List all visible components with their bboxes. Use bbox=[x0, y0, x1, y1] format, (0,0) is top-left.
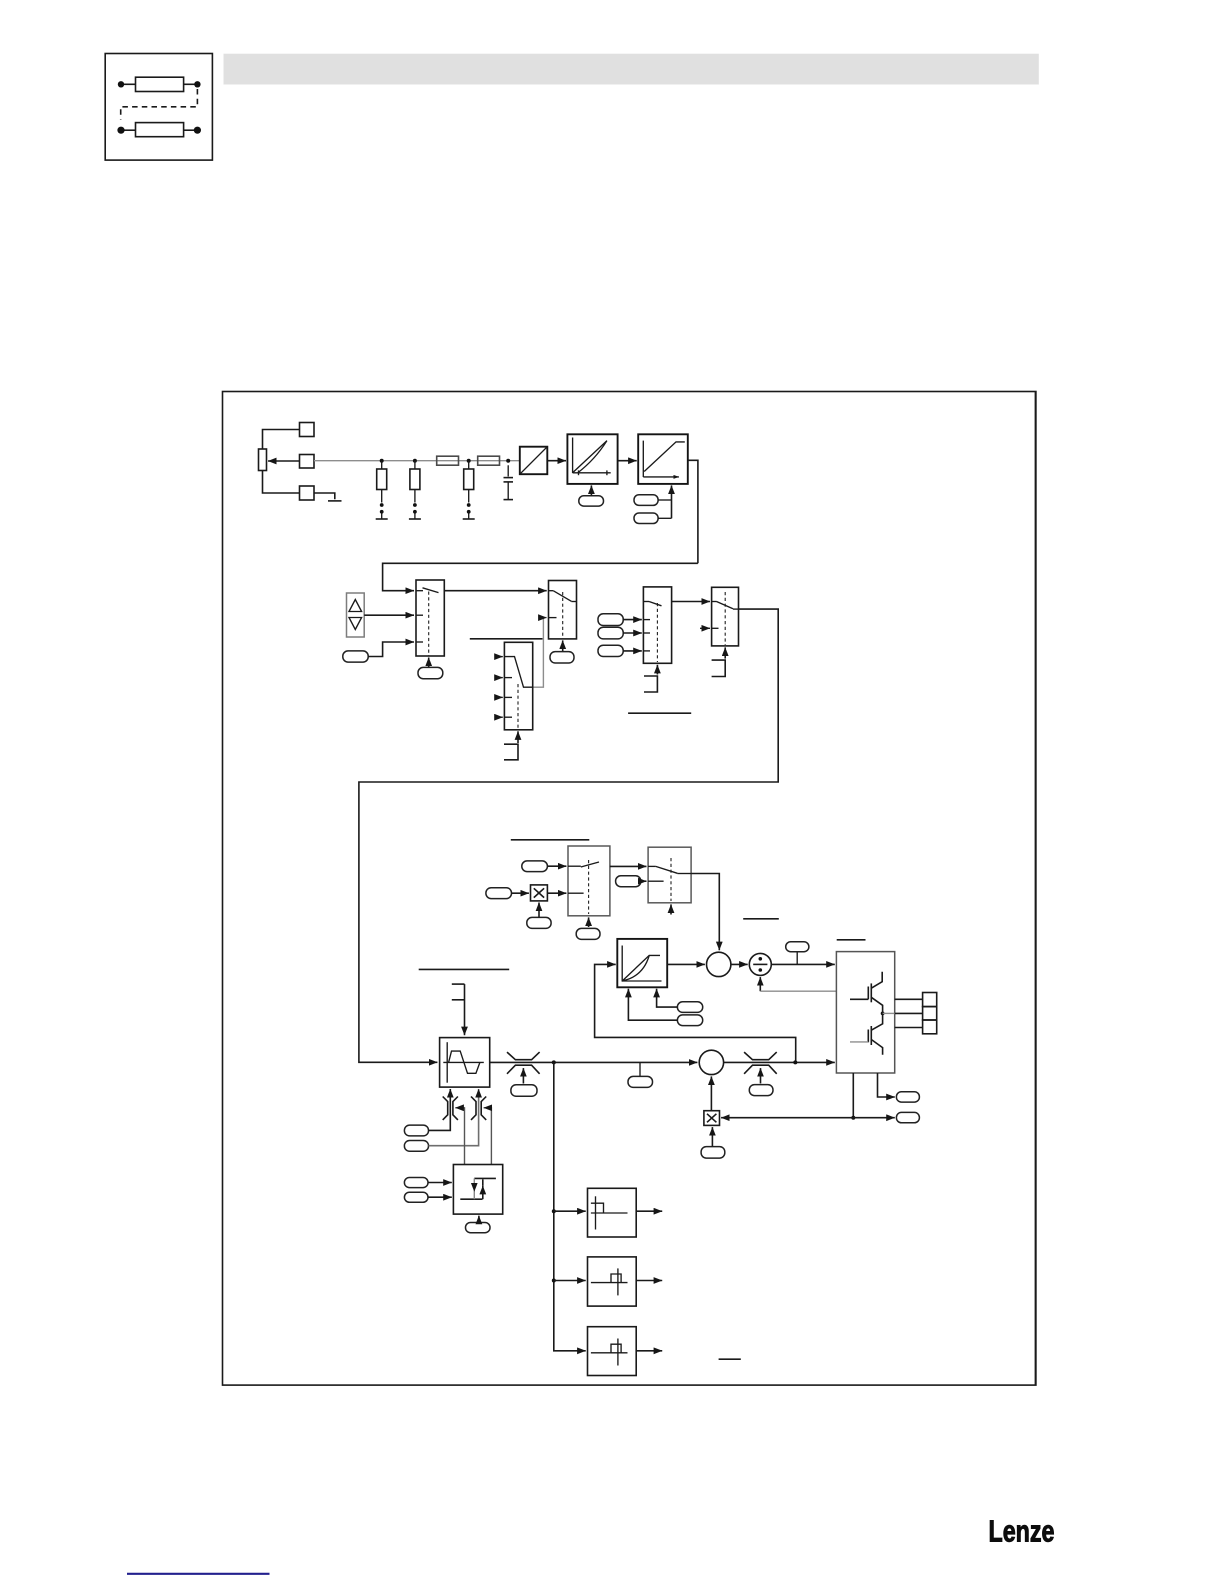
svg-text:Lenze: Lenze bbox=[989, 1515, 1055, 1549]
